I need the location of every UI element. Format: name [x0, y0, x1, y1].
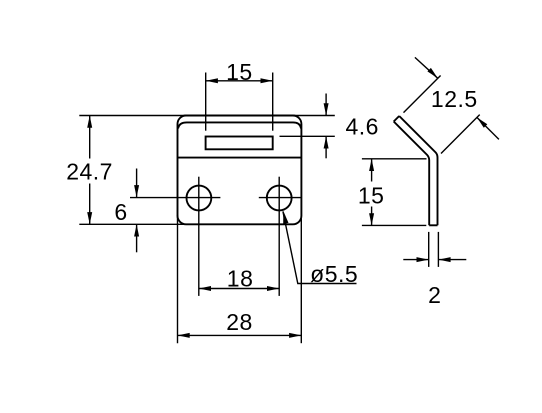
svg-text:15: 15	[226, 59, 253, 85]
svg-text:4.6: 4.6	[345, 114, 378, 140]
svg-text:ø5.5: ø5.5	[310, 261, 358, 287]
svg-text:15: 15	[358, 182, 385, 208]
svg-text:18: 18	[227, 266, 254, 292]
svg-text:6: 6	[114, 199, 127, 225]
svg-text:2: 2	[428, 282, 441, 308]
svg-text:24.7: 24.7	[66, 159, 113, 185]
svg-text:28: 28	[226, 309, 253, 335]
svg-text:12.5: 12.5	[431, 86, 478, 112]
